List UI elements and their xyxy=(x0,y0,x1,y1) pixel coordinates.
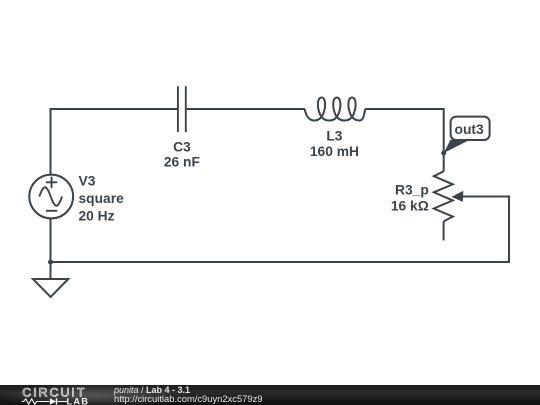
wire wiper to right return xyxy=(51,197,510,263)
svg-text:20 Hz: 20 Hz xyxy=(79,209,115,224)
potentiometer R3_p zigzag xyxy=(434,171,453,221)
svg-text:16 kΩ: 16 kΩ xyxy=(391,199,429,214)
CircuitLab logo xyxy=(0,385,110,405)
out3 callout box xyxy=(451,117,490,140)
svg-text:C3: C3 xyxy=(173,139,191,154)
minus sign xyxy=(46,210,57,212)
wire capacitor to inductor xyxy=(187,108,305,110)
wire inductor to corner xyxy=(365,108,444,110)
svg-text:LAB: LAB xyxy=(67,396,90,405)
svg-text:R3_p: R3_p xyxy=(395,182,429,197)
junction dot ground xyxy=(48,260,53,265)
potentiometer bottom stub xyxy=(443,221,445,240)
svg-text:26 nF: 26 nF xyxy=(164,154,200,169)
wire source to ground junction xyxy=(50,218,52,262)
footer bar xyxy=(0,385,540,405)
svg-text:V3: V3 xyxy=(79,173,96,188)
wiper arrowhead xyxy=(452,191,464,202)
wire left vertical xyxy=(50,108,52,175)
node dot out3 xyxy=(441,151,446,156)
wire down to node out3 xyxy=(443,108,445,152)
svg-text:160 mH: 160 mH xyxy=(310,144,359,159)
voltage source V3 circle xyxy=(29,175,73,219)
plus sign xyxy=(46,177,57,188)
footer text line 2 xyxy=(114,394,263,404)
svg-text:square: square xyxy=(79,191,125,206)
out3 callout tail xyxy=(444,140,468,153)
sine wave inside source xyxy=(39,187,62,206)
ground symbol xyxy=(33,279,68,297)
ground wire xyxy=(50,262,52,279)
svg-text:L3: L3 xyxy=(326,128,342,143)
wire top-left horizontal xyxy=(51,108,178,110)
logo diode glyph xyxy=(50,398,56,405)
svg-text:out3: out3 xyxy=(455,122,484,137)
logo resistor zigzag glyph xyxy=(22,398,50,403)
footer text line 1 xyxy=(114,386,190,396)
inductor L3 xyxy=(305,98,366,121)
wire node to potentiometer xyxy=(443,153,445,172)
capacitor C3 xyxy=(178,86,186,132)
